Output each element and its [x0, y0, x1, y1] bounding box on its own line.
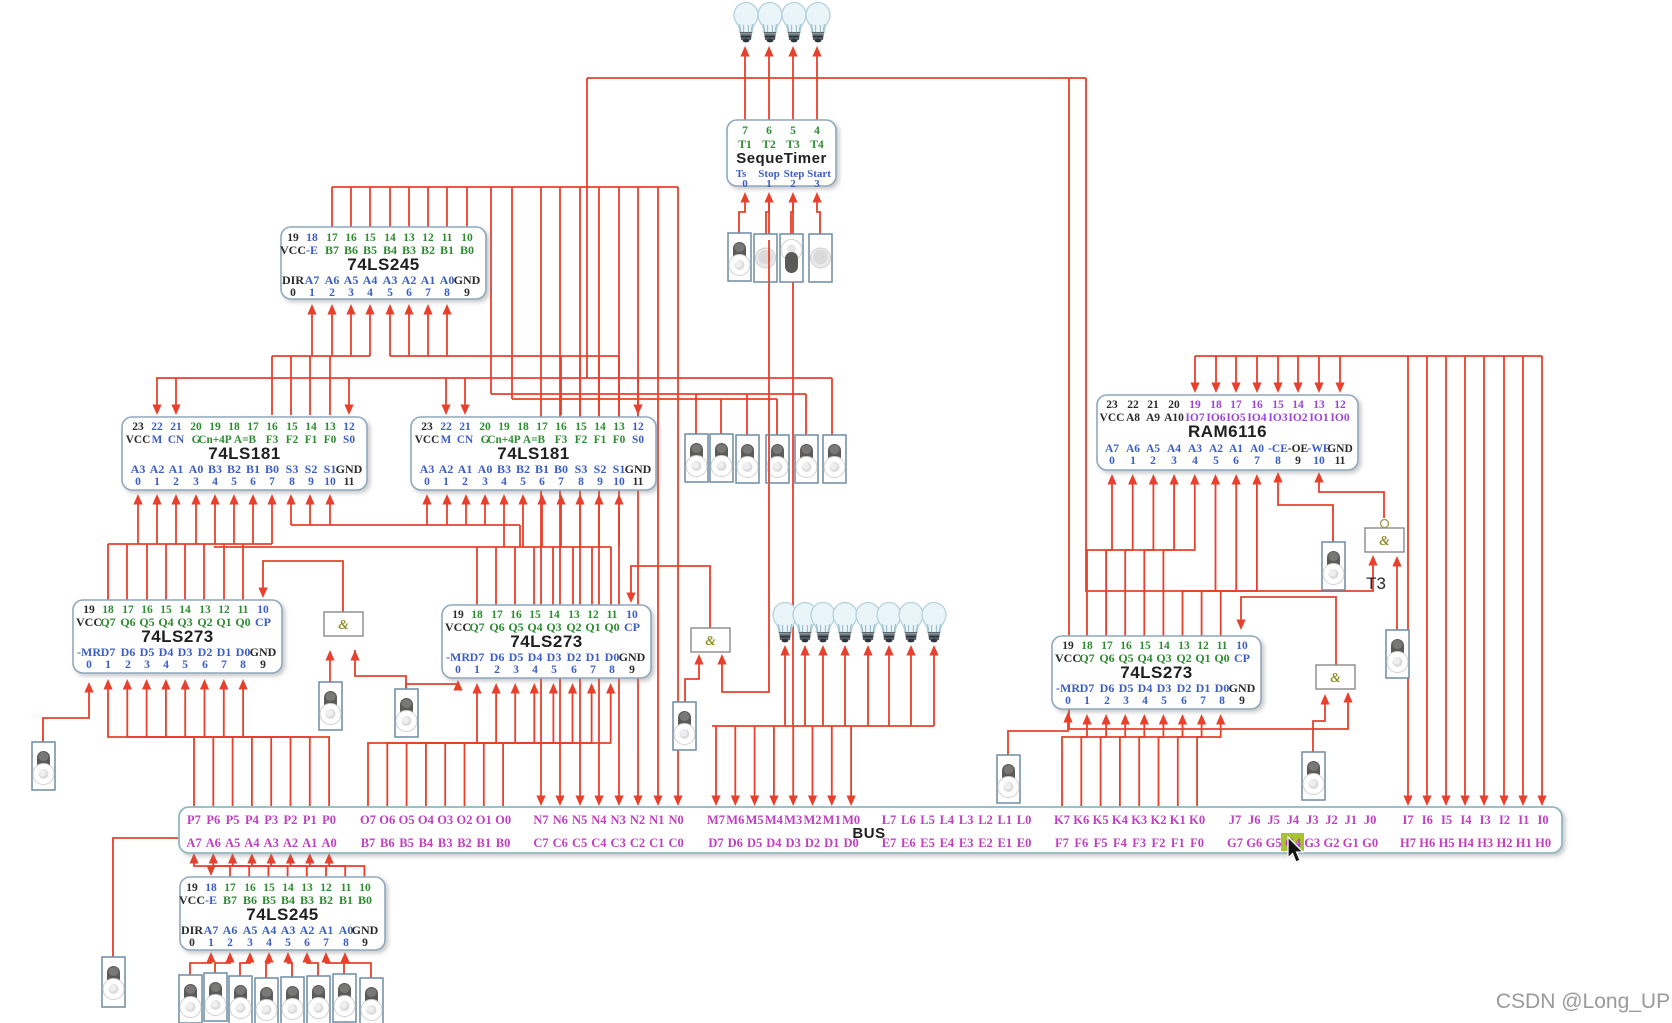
svg-text:3: 3: [348, 287, 354, 299]
wire G3 gate right input from switch: [1396, 560, 1398, 630]
svg-text:CP: CP: [255, 615, 271, 629]
svg-text:A0: A0: [321, 836, 336, 850]
svg-text:IO3: IO3: [1268, 412, 1287, 424]
svg-text:5: 5: [1161, 695, 1167, 707]
svg-text:A2: A2: [402, 273, 417, 287]
svg-text:2: 2: [462, 476, 468, 488]
lamp L1 T1 indicator: [734, 2, 758, 42]
wire G1 right input line: [355, 650, 406, 689]
svg-text:4: 4: [367, 287, 373, 299]
svg-text:3: 3: [814, 178, 820, 190]
wire G1 gate output to register A clock CP: [263, 561, 343, 613]
svg-text:P1: P1: [303, 813, 317, 827]
svg-text:5: 5: [1213, 455, 1219, 467]
svg-text:Q1: Q1: [216, 615, 231, 629]
svg-text:E5: E5: [920, 836, 935, 850]
svg-text:9: 9: [597, 476, 603, 488]
svg-text:S2: S2: [305, 462, 318, 476]
svg-text:2: 2: [1104, 695, 1110, 707]
svg-text:14: 14: [305, 421, 317, 433]
svg-text:A1: A1: [302, 836, 317, 850]
svg-text:F3: F3: [1132, 836, 1146, 850]
svg-text:2: 2: [173, 476, 179, 488]
wire RAM -WE from gate G3 bubble: [1319, 475, 1384, 518]
svg-text:SequeTimer: SequeTimer: [736, 150, 827, 167]
svg-text:F5: F5: [1094, 836, 1108, 850]
svg-text:E1: E1: [998, 836, 1013, 850]
svg-text:N5: N5: [572, 813, 587, 827]
svg-text:74LS245: 74LS245: [246, 905, 319, 924]
svg-text:A1: A1: [458, 462, 473, 476]
svg-text:Q0: Q0: [604, 620, 619, 634]
svg-text:A5: A5: [344, 273, 359, 287]
svg-text:Q7: Q7: [1079, 651, 1094, 665]
wire G2 gate output to register B clock CP: [631, 566, 710, 628]
svg-text:CSDN @Long_UP: CSDN @Long_UP: [1496, 990, 1670, 1013]
svg-text:A1: A1: [319, 923, 334, 937]
switch S4 Start button: [809, 234, 832, 282]
svg-text:F7: F7: [1055, 836, 1069, 850]
svg-text:B1: B1: [246, 462, 260, 476]
svg-text:G3: G3: [1304, 836, 1320, 850]
svg-text:P2: P2: [284, 813, 298, 827]
svg-text:S0: S0: [343, 434, 355, 446]
svg-text:A7: A7: [305, 273, 320, 287]
svg-text:C1: C1: [649, 836, 664, 850]
svg-text:20: 20: [190, 421, 202, 433]
svg-text:F2: F2: [575, 434, 588, 446]
svg-text:6: 6: [406, 287, 412, 299]
svg-text:B7: B7: [325, 243, 339, 257]
wire bundle register B (74LS273) Q7-Q0 to ALU2 B inputs: [214, 546, 611, 548]
svg-text:DIR: DIR: [181, 923, 203, 937]
svg-text:A7: A7: [204, 923, 219, 937]
svg-text:P6: P6: [206, 813, 220, 827]
svg-text:D5: D5: [509, 650, 524, 664]
svg-text:A6: A6: [1126, 443, 1140, 455]
svg-text:-OE: -OE: [1288, 443, 1309, 455]
svg-text:23: 23: [132, 421, 144, 433]
svg-text:9: 9: [1239, 695, 1245, 707]
wire long T3 line down to indicator comb: [792, 196, 794, 726]
svg-text:18: 18: [228, 421, 240, 433]
switch S24 data input bit 3: [281, 977, 304, 1023]
svg-text:8: 8: [609, 664, 615, 676]
svg-text:S3: S3: [575, 462, 588, 476]
wire drops into RAM IO pins: [1194, 356, 1196, 385]
svg-text:A3: A3: [131, 462, 146, 476]
svg-text:5: 5: [182, 659, 188, 671]
svg-text:O7: O7: [360, 813, 376, 827]
svg-text:D1: D1: [586, 650, 601, 664]
svg-text:N1: N1: [649, 813, 664, 827]
svg-text:-E: -E: [306, 243, 318, 257]
svg-text:BUS: BUS: [852, 825, 885, 842]
svg-text:B2: B2: [457, 836, 472, 850]
svg-text:A2: A2: [300, 923, 315, 937]
and-gate G2 register B clock gate: [691, 628, 730, 652]
svg-text:1: 1: [309, 287, 315, 299]
svg-text:0: 0: [86, 659, 92, 671]
svg-text:H5: H5: [1439, 836, 1455, 850]
lamp L4 T4 indicator: [806, 2, 830, 42]
svg-text:J2: J2: [1325, 813, 1338, 827]
svg-text:M6: M6: [726, 813, 744, 827]
svg-text:A7: A7: [1105, 443, 1119, 455]
svg-text:VCC: VCC: [126, 434, 150, 446]
lamp L9 bus indicator bit 3: [856, 603, 880, 643]
svg-text:9: 9: [308, 476, 314, 488]
svg-text:F1: F1: [305, 434, 318, 446]
svg-text:A0: A0: [440, 273, 455, 287]
svg-text:7: 7: [221, 659, 227, 671]
wire droppers comb to BUS M7-M0: [715, 726, 717, 798]
wire bundle input driver B7-B0 to BUS A7-A0: [194, 855, 230, 877]
svg-text:-MR: -MR: [446, 650, 470, 664]
svg-text:S2: S2: [594, 462, 607, 476]
svg-text:3: 3: [144, 659, 150, 671]
wire bundle BUS O7-O0 to register B D7-D0: [368, 687, 477, 806]
svg-text:O2: O2: [457, 813, 473, 827]
wire G4 gate output to MAR clock CP: [1241, 597, 1336, 665]
svg-text:-E: -E: [205, 893, 217, 907]
svg-text:F1: F1: [1171, 836, 1185, 850]
wire ALU mode line B2 to mode switches: [512, 398, 777, 400]
svg-text:-MR: -MR: [1056, 681, 1080, 695]
wire ALU2 S3 S2 S1 feeders: [579, 498, 581, 547]
svg-text:3: 3: [513, 664, 519, 676]
bus selected cell G4 highlight: [1281, 833, 1304, 851]
svg-text:P3: P3: [264, 813, 278, 827]
wire long Ts enable line down to register clock gate G2: [722, 196, 769, 692]
svg-text:D1: D1: [824, 836, 839, 850]
chip U2 74LS245 ALU output driver: [281, 227, 486, 299]
svg-text:B2: B2: [319, 893, 333, 907]
svg-text:P5: P5: [226, 813, 240, 827]
svg-text:8: 8: [240, 659, 246, 671]
svg-text:4: 4: [212, 476, 218, 488]
svg-text:4: 4: [532, 664, 538, 676]
and-gate G4 MAR clock gate: [1316, 665, 1355, 689]
wire ALU S-select distribution line: [291, 524, 520, 526]
svg-text:K5: K5: [1093, 813, 1109, 827]
svg-text:B3: B3: [438, 836, 453, 850]
svg-text:GND: GND: [619, 650, 646, 664]
svg-text:L5: L5: [920, 813, 935, 827]
svg-text:B1: B1: [535, 462, 549, 476]
svg-text:19: 19: [498, 421, 510, 433]
svg-text:GND: GND: [336, 462, 363, 476]
svg-text:13: 13: [324, 421, 336, 433]
svg-text:E4: E4: [940, 836, 955, 850]
and-gate G3 RAM write gate with bubble: [1365, 520, 1404, 553]
svg-text:0: 0: [135, 476, 141, 488]
svg-text:H6: H6: [1419, 836, 1435, 850]
svg-text:GND: GND: [352, 923, 379, 937]
svg-text:9: 9: [260, 659, 266, 671]
svg-text:7: 7: [558, 476, 564, 488]
svg-text:7: 7: [590, 664, 596, 676]
svg-text:GND: GND: [625, 462, 652, 476]
svg-text:1: 1: [105, 659, 111, 671]
svg-text:O5: O5: [399, 813, 415, 827]
svg-text:18: 18: [1210, 399, 1222, 411]
svg-text:A4: A4: [363, 273, 378, 287]
svg-text:Q6: Q6: [489, 620, 504, 634]
svg-text:9: 9: [362, 937, 368, 949]
lamp L10 bus indicator bit 2: [877, 603, 901, 643]
svg-text:13: 13: [613, 421, 625, 433]
svg-text:6: 6: [202, 659, 208, 671]
svg-text:7: 7: [425, 287, 431, 299]
svg-text:D4: D4: [1138, 681, 1153, 695]
svg-text:N6: N6: [553, 813, 568, 827]
svg-text:M2: M2: [803, 813, 821, 827]
svg-text:F4: F4: [1113, 836, 1128, 850]
svg-text:S1: S1: [613, 462, 626, 476]
svg-text:17: 17: [247, 421, 259, 433]
svg-text:L0: L0: [1017, 813, 1032, 827]
svg-text:J6: J6: [1248, 813, 1261, 827]
svg-text:4: 4: [163, 659, 169, 671]
svg-text:Q6: Q6: [1099, 651, 1114, 665]
svg-text:K4: K4: [1112, 813, 1129, 827]
svg-text:O4: O4: [418, 813, 435, 827]
svg-text:IO1: IO1: [1309, 412, 1328, 424]
svg-text:VCC: VCC: [415, 434, 439, 446]
svg-text:B1: B1: [339, 893, 353, 907]
svg-text:S1: S1: [324, 462, 337, 476]
svg-text:A8: A8: [1126, 412, 1140, 424]
svg-text:19: 19: [209, 421, 221, 433]
wire risers to indicator lamps: [784, 649, 786, 726]
svg-text:GND: GND: [1327, 443, 1353, 455]
wire bundle BUS P7-P0 to register A D7-D0: [108, 683, 194, 806]
svg-text:VCC: VCC: [280, 243, 306, 257]
svg-text:A3: A3: [264, 836, 279, 850]
svg-text:M4: M4: [765, 813, 784, 827]
svg-text:I7: I7: [1402, 813, 1413, 827]
svg-text:3: 3: [247, 937, 253, 949]
svg-text:4: 4: [501, 476, 507, 488]
chip U5 RAM6116 memory: [1097, 395, 1358, 470]
svg-text:6: 6: [250, 476, 256, 488]
svg-text:A9: A9: [1146, 412, 1160, 424]
svg-text:K0: K0: [1189, 813, 1205, 827]
svg-text:M: M: [441, 434, 452, 446]
svg-text:A3: A3: [420, 462, 435, 476]
svg-text:CP: CP: [624, 620, 640, 634]
svg-text:0: 0: [424, 476, 430, 488]
switch S22 data input bit 5: [229, 976, 252, 1023]
svg-text:D0: D0: [236, 645, 251, 659]
svg-text:15: 15: [286, 421, 298, 433]
lamp L12 bus indicator bit 0: [922, 603, 946, 643]
svg-text:D6: D6: [490, 650, 505, 664]
svg-text:S3: S3: [286, 462, 299, 476]
svg-text:D1: D1: [217, 645, 232, 659]
svg-text:D7: D7: [470, 650, 485, 664]
svg-text:P7: P7: [187, 813, 201, 827]
svg-text:VCC: VCC: [179, 893, 205, 907]
lamp L7 bus indicator bit 5: [811, 603, 835, 643]
svg-text:VCC: VCC: [76, 615, 102, 629]
chip U3 74LS181 ALU high nibble: [122, 417, 367, 490]
svg-text:6: 6: [304, 937, 310, 949]
svg-text:A2: A2: [439, 462, 454, 476]
svg-text:A4: A4: [244, 836, 260, 850]
switch S20 data input bit 7: [179, 975, 202, 1023]
svg-text:B0: B0: [265, 462, 279, 476]
svg-text:16: 16: [1251, 399, 1263, 411]
switch S19 input driver enable: [102, 957, 125, 1007]
svg-text:11: 11: [1335, 455, 1346, 467]
svg-text:16: 16: [266, 421, 278, 433]
wire Ts line visible over mode switch: [768, 435, 770, 483]
wire T1-T4 lamps feed from SequeTimer outputs: [744, 52, 746, 120]
svg-text:7: 7: [323, 937, 329, 949]
svg-text:6: 6: [1233, 455, 1239, 467]
svg-text:D2: D2: [805, 836, 820, 850]
svg-text:A0: A0: [189, 462, 204, 476]
svg-text:17: 17: [1230, 399, 1242, 411]
wire bundle register A (74LS273) Q7-Q0 to ALU1 A/B inputs: [108, 543, 272, 545]
svg-text:15: 15: [575, 421, 587, 433]
svg-text:9: 9: [629, 664, 635, 676]
svg-text:74LS245: 74LS245: [347, 255, 420, 274]
svg-text:L6: L6: [901, 813, 916, 827]
svg-text:GND: GND: [250, 645, 277, 659]
svg-text:F0: F0: [1190, 836, 1204, 850]
svg-text:B0: B0: [460, 243, 474, 257]
svg-text:L2: L2: [978, 813, 993, 827]
svg-text:12: 12: [343, 421, 355, 433]
wire vertical T feed left to ALU mode region: [586, 78, 588, 378]
svg-text:P4: P4: [245, 813, 260, 827]
wire bundle BUS I7-I0 columns: [1407, 356, 1409, 798]
svg-text:8: 8: [289, 476, 295, 488]
svg-text:B4: B4: [419, 836, 434, 850]
switch S17 G3 gate input: [1386, 630, 1409, 678]
switch S15 MAR -MR: [997, 755, 1020, 803]
svg-text:E3: E3: [959, 836, 974, 850]
svg-text:RAM6116: RAM6116: [1188, 422, 1267, 441]
svg-text:L3: L3: [959, 813, 974, 827]
svg-text:3: 3: [1171, 455, 1177, 467]
svg-text:C5: C5: [572, 836, 587, 850]
svg-text:A10: A10: [1164, 412, 1184, 424]
svg-text:N7: N7: [533, 813, 548, 827]
svg-text:74LS181: 74LS181: [208, 444, 281, 463]
svg-text:B0: B0: [554, 462, 568, 476]
svg-text:C4: C4: [591, 836, 607, 850]
svg-text:D1: D1: [1196, 681, 1211, 695]
svg-text:11: 11: [344, 476, 355, 488]
wire RAM -CE to switch: [1278, 475, 1333, 542]
svg-text:G0: G0: [1362, 836, 1378, 850]
svg-text:22: 22: [151, 421, 163, 433]
svg-text:A6: A6: [223, 923, 238, 937]
switch S9 ALU mode: [795, 435, 818, 483]
svg-text:3: 3: [482, 476, 488, 488]
svg-text:A3: A3: [383, 273, 398, 287]
svg-text:Q6: Q6: [120, 615, 135, 629]
svg-text:O1: O1: [476, 813, 492, 827]
svg-text:B0: B0: [358, 893, 372, 907]
svg-text:CP: CP: [1234, 651, 1250, 665]
svg-text:2: 2: [227, 937, 233, 949]
svg-text:D2: D2: [198, 645, 213, 659]
svg-text:74LS181: 74LS181: [497, 444, 570, 463]
svg-text:E2: E2: [978, 836, 993, 850]
svg-text:A7: A7: [186, 836, 201, 850]
svg-text:D4: D4: [159, 645, 174, 659]
svg-text:6: 6: [539, 476, 545, 488]
svg-text:2: 2: [329, 287, 335, 299]
switch S2 Stop button: [754, 234, 777, 282]
wire G2 left input from switch: [685, 658, 699, 702]
svg-text:J0: J0: [1364, 813, 1377, 827]
lamp L2 T2 indicator: [758, 2, 782, 42]
svg-text:3: 3: [193, 476, 199, 488]
svg-text:F2: F2: [286, 434, 299, 446]
lamp L8 bus indicator bit 4: [833, 603, 857, 643]
svg-text:J3: J3: [1306, 813, 1319, 827]
svg-text:13: 13: [1313, 399, 1325, 411]
wire switch to register A -MR: [43, 686, 89, 742]
svg-text:M5: M5: [746, 813, 764, 827]
svg-text:10: 10: [613, 476, 625, 488]
svg-text:L4: L4: [940, 813, 955, 827]
svg-text:H0: H0: [1535, 836, 1551, 850]
svg-text:&: &: [1330, 670, 1341, 685]
svg-text:5: 5: [231, 476, 237, 488]
svg-text:1: 1: [1130, 455, 1136, 467]
svg-text:10: 10: [1313, 455, 1325, 467]
svg-text:D7: D7: [708, 836, 723, 850]
wire indicator comb line: [712, 725, 934, 727]
svg-text:A6: A6: [206, 836, 221, 850]
svg-text:B2: B2: [516, 462, 530, 476]
wire vertical T3 line to RAM write gate: [1086, 78, 1373, 591]
svg-text:A5: A5: [225, 836, 240, 850]
switch S16 RAM -CE: [1322, 542, 1345, 590]
switch S14 G2 gate input: [673, 702, 696, 750]
svg-text:21: 21: [459, 421, 471, 433]
svg-text:K3: K3: [1131, 813, 1147, 827]
svg-text:8: 8: [1275, 455, 1281, 467]
svg-text:D2: D2: [1177, 681, 1192, 695]
svg-text:A5: A5: [243, 923, 258, 937]
svg-text:F6: F6: [1074, 836, 1088, 850]
svg-text:B2: B2: [421, 243, 435, 257]
svg-text:E6: E6: [901, 836, 916, 850]
svg-text:P0: P0: [322, 813, 336, 827]
wire switch to MAR -MR: [1008, 716, 1068, 755]
svg-text:F1: F1: [594, 434, 607, 446]
svg-text:1: 1: [1084, 695, 1090, 707]
svg-text:B7: B7: [361, 836, 376, 850]
svg-text:0: 0: [1109, 455, 1115, 467]
svg-text:A4: A4: [262, 923, 277, 937]
svg-text:GND: GND: [1229, 681, 1256, 695]
svg-text:A0: A0: [478, 462, 493, 476]
wire bundle ALU1 F3-F0 to 74LS245 A7-A4: [272, 355, 370, 357]
wire switch to register B -MR: [406, 682, 458, 689]
svg-text:&: &: [705, 633, 716, 648]
svg-text:9: 9: [1295, 455, 1301, 467]
svg-text:20: 20: [1168, 399, 1180, 411]
